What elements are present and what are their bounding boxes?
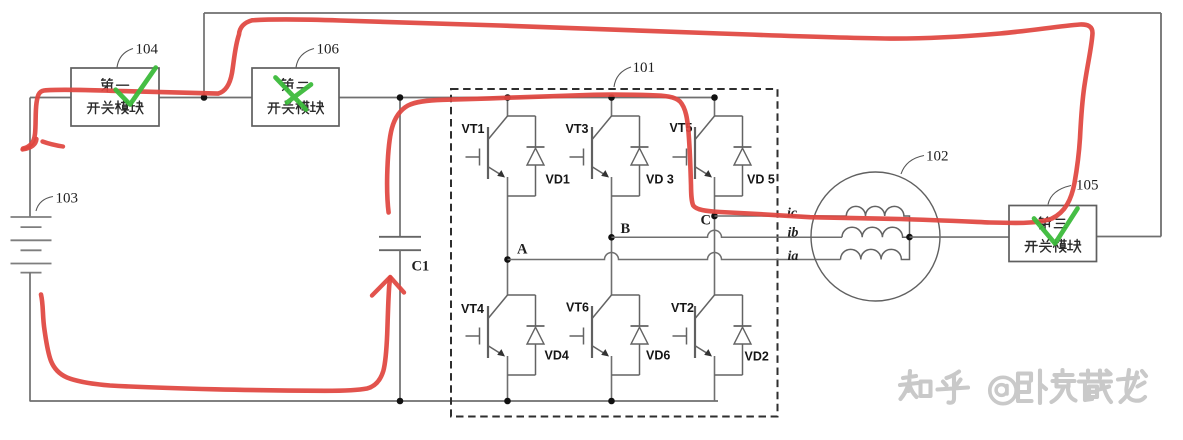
wire top border rail <box>204 12 1161 14</box>
green checkmark on module 106 <box>276 78 312 110</box>
battery 103 <box>11 217 52 401</box>
svg-text:103: 103 <box>56 191 79 207</box>
transistor VT5 <box>670 116 752 196</box>
phase line labels ic ib ia <box>787 206 798 264</box>
green checkmark on module 105 <box>1034 209 1078 244</box>
wire inverter leg 2 vertical <box>611 98 613 402</box>
green checkmark on module 104 <box>116 68 156 105</box>
winding phase a <box>841 237 910 259</box>
wire positive DC rail <box>30 97 715 99</box>
label 102 with leader <box>901 149 949 175</box>
diode VD5 label <box>747 173 775 187</box>
svg-text:VD6: VD6 <box>646 349 670 363</box>
wire from right side to switch module 105 <box>1097 236 1162 238</box>
label 101 with leader <box>614 60 655 87</box>
wire negative DC rail (bottom) <box>30 400 719 402</box>
star point node <box>906 234 913 241</box>
red arrowhead near battery <box>23 139 64 150</box>
svg-text:101: 101 <box>633 60 656 76</box>
diode VD2 label <box>745 350 769 364</box>
svg-text:104: 104 <box>136 42 159 58</box>
node C and phase-c line ic <box>701 213 847 229</box>
svg-text:VD4: VD4 <box>545 349 569 363</box>
motor winding circle 102 <box>811 172 940 301</box>
svg-text:A: A <box>517 242 528 258</box>
svg-text:ia: ia <box>788 249 799 264</box>
diode VD4 label <box>545 349 569 363</box>
winding phase c <box>846 206 909 237</box>
svg-text:VT2: VT2 <box>671 301 694 315</box>
svg-text:ib: ib <box>788 226 799 241</box>
red annotation main loop stroke <box>23 19 1093 222</box>
transistor VT4 <box>461 295 545 375</box>
transistor VT6 <box>566 295 649 375</box>
svg-text:VD2: VD2 <box>745 350 769 364</box>
capacitor C1 <box>379 98 421 402</box>
svg-text:VD 3: VD 3 <box>646 173 674 187</box>
dashed enclosure 101 (inverter bridge) <box>451 89 778 417</box>
wire battery positive lead <box>29 98 31 218</box>
svg-text:106: 106 <box>317 42 340 58</box>
label 103 with leader <box>36 191 78 212</box>
transistor VT1 <box>462 116 545 196</box>
label 106 with leader <box>296 42 340 68</box>
switch module 105 (third) <box>1009 206 1097 262</box>
svg-text:105: 105 <box>1076 178 1099 194</box>
diode VD1 label <box>546 173 570 187</box>
wire star point to switch module 105 <box>910 236 1010 238</box>
svg-text:VT1: VT1 <box>462 122 485 136</box>
svg-text:C: C <box>701 213 711 229</box>
switch module 104 (first) <box>71 68 159 126</box>
wire inverter leg 1 vertical <box>507 98 509 402</box>
diode VD3 label <box>646 173 674 187</box>
transistor VT3 <box>566 116 649 196</box>
wire vertical drop from top border to node at main rail <box>203 13 205 98</box>
node A and phase-a line ia <box>504 242 840 263</box>
red bottom return stroke with arrow to C1 <box>41 277 404 391</box>
label 105 with leader <box>1048 178 1099 205</box>
junction dots on DC rails <box>201 94 718 404</box>
node B and phase-b line ib <box>608 221 842 241</box>
diode VD6 label <box>646 349 670 363</box>
svg-text:102: 102 <box>926 149 949 165</box>
svg-text:VT3: VT3 <box>566 122 589 136</box>
label 104 with leader <box>117 42 159 68</box>
svg-text:VD1: VD1 <box>546 173 570 187</box>
label C1 <box>412 259 430 275</box>
wire right side vertical <box>1160 13 1162 237</box>
transistor VT2 <box>671 295 752 375</box>
watermark zhihu <box>900 370 1146 404</box>
svg-text:B: B <box>621 221 631 237</box>
switch module 106 (second) <box>252 68 339 126</box>
wire inverter leg 3 vertical <box>714 98 716 402</box>
svg-text:VD 5: VD 5 <box>747 173 775 187</box>
svg-text:C1: C1 <box>412 259 430 275</box>
svg-text:ic: ic <box>787 206 798 221</box>
winding phase b <box>842 227 910 237</box>
svg-text:VT4: VT4 <box>461 302 484 316</box>
svg-text:VT6: VT6 <box>566 301 589 315</box>
